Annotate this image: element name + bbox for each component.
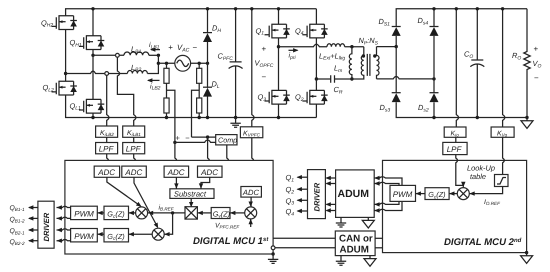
svg-text:PWM: PWM	[393, 190, 413, 199]
mixer squareX	[185, 207, 197, 219]
inductor LB2	[127, 71, 147, 74]
svg-text:Q1: Q1	[286, 173, 295, 183]
box MCU2	[383, 160, 527, 252]
transformer secondary winding	[377, 47, 380, 79]
wire: row LB2 with hop over QL1 drain and sense gap	[66, 71, 128, 73]
svg-text:QH1: QH1	[70, 38, 82, 48]
svg-text:Gc(Z): Gc(Z)	[107, 232, 124, 242]
wire: left divider middle	[166, 83, 168, 98]
wire: Q2 source to rail corner	[315, 104, 317, 117]
svg-text:Q3: Q3	[258, 93, 267, 103]
svg-text:ipri: ipri	[289, 52, 297, 61]
diode DH	[204, 33, 212, 40]
svg-text:−: −	[193, 43, 198, 52]
node: DH on top rail	[206, 7, 209, 10]
svg-text:+: +	[168, 43, 173, 52]
wire: AC line left	[158, 62, 174, 64]
transistor Q2	[302, 90, 327, 105]
svg-text:Comp: Comp	[218, 136, 237, 145]
wire: lookup to mult4	[469, 187, 502, 194]
wire: ADC5 to mult3	[250, 197, 252, 207]
svg-text:DIGITAL MCU 2nd: DIGITAL MCU 2nd	[444, 237, 522, 248]
svg-text:Q4: Q4	[286, 207, 295, 217]
transistor Q1	[265, 24, 290, 39]
svg-text:+: +	[262, 45, 267, 54]
svg-text:Q2: Q2	[286, 185, 295, 195]
node: CO top	[476, 7, 479, 10]
wire: mult3 to GvZ	[230, 212, 245, 214]
box PWM1	[71, 206, 98, 219]
box ADUM	[336, 170, 375, 218]
ground: ADUM triangle	[362, 217, 374, 228]
wire: mult1 to GcZ1	[129, 212, 136, 214]
ground: MCU1 earth	[268, 254, 278, 263]
resistor divider right upper	[198, 63, 200, 68]
wire: Substract to squareX	[190, 198, 192, 207]
box PWM3	[390, 185, 416, 201]
svg-text:LB1: LB1	[131, 45, 141, 55]
ground: CAN triangle	[364, 256, 376, 267]
svg-text:ADUM: ADUM	[340, 245, 369, 256]
box ADC3	[164, 166, 189, 177]
inductor LB1	[124, 52, 149, 55]
svg-text:ADC: ADC	[200, 168, 218, 177]
wire: GcZ3 to PWM3	[416, 193, 426, 195]
sense circle iLB1	[116, 53, 120, 57]
multiplier mult2	[152, 228, 164, 240]
svg-text:ADC: ADC	[242, 188, 260, 197]
wire: CAN to MCU2 stub lower	[375, 247, 382, 249]
wire: CAN bus line lower with circle at MCU1 edge	[273, 247, 335, 249]
svg-text:Ds3: Ds3	[380, 103, 391, 113]
svg-text:LPF: LPF	[126, 145, 142, 154]
wire: KILB2 to LPF	[106, 137, 108, 142]
wire: KILB1 to LPF	[133, 137, 135, 142]
wire: row LB1 with sense circle gap	[93, 54, 124, 56]
wire: PWM2 out a	[57, 229, 71, 230]
wire: driver2 out Q3	[298, 199, 308, 201]
wire: KVo sense line with rail hop	[503, 9, 505, 127]
svg-text:QB1-2: QB1-2	[10, 216, 25, 223]
wire: VOPFC sense bar	[252, 9, 254, 127]
svg-text:PWM: PWM	[74, 232, 94, 241]
svg-text:−: −	[534, 74, 539, 83]
svg-text:PWM: PWM	[74, 210, 94, 219]
svg-text:QH2: QH2	[41, 18, 53, 28]
wire: QL1 source	[92, 113, 94, 117]
node: LB1 left	[91, 54, 94, 57]
node A: bridge left midpoint	[277, 45, 280, 48]
wire: right divider tap to comparator minus	[192, 90, 200, 137]
svg-text:iLB2: iLB2	[150, 82, 161, 91]
wire: mult2 to GcZ2	[129, 233, 153, 235]
wire: Q4 drain from rail corner	[315, 9, 317, 24]
svg-text:NP:NS: NP:NS	[359, 36, 379, 46]
wire: driver2 out Q4	[298, 210, 308, 212]
wire: LExt to Lm node	[345, 46, 364, 48]
capacitor CO	[470, 9, 484, 118]
wire: Kio to LPF3	[455, 137, 457, 142]
capacitor CPFC	[229, 9, 243, 118]
ground: ADUM earth	[340, 216, 342, 219]
node: DL on bottom rail	[206, 116, 209, 119]
diode DS1	[392, 27, 401, 36]
node: RO bottom	[525, 116, 528, 119]
node: CPFC top	[234, 7, 237, 10]
box KILB2	[96, 126, 118, 137]
transistor QH1	[79, 35, 104, 50]
box ADC5	[241, 187, 262, 198]
wire: Q3 source	[278, 104, 280, 117]
wire: driver out QB1-2	[29, 217, 38, 219]
wire: secondary top rail	[396, 9, 527, 27]
wire: secondary bottom to rectifier with hop	[377, 77, 435, 79]
node: CR junction	[315, 77, 318, 80]
svg-text:VAC: VAC	[177, 43, 190, 53]
wire: PWM3 wrap inner to ADUM	[374, 182, 399, 204]
node: Lm top	[350, 45, 353, 48]
diode Ds4	[433, 9, 435, 27]
wire: CAN bus line upper (hop MCU1 edge)	[273, 237, 335, 239]
svg-text:Ds2: Ds2	[418, 103, 429, 113]
wire: DH vertical	[207, 9, 209, 64]
box ADC4	[198, 166, 223, 177]
node: Ds4 on top rail	[432, 7, 435, 10]
wire: GvZ to squareX	[197, 212, 211, 214]
node: left divider bottom	[165, 116, 168, 119]
inductor LExt+Llkg	[327, 44, 345, 47]
box CAN or ADUM	[335, 231, 375, 256]
node: DH DL junction	[206, 62, 209, 65]
wire: row LB1 right end	[149, 54, 159, 56]
wire: Q3 drain	[278, 47, 280, 91]
wire: driver out QB2-1	[29, 229, 38, 231]
wire: primary top rail	[66, 9, 317, 16]
svg-text:VO: VO	[533, 59, 542, 69]
svg-text:Q2: Q2	[295, 93, 304, 103]
node: DS1 Ds3 midpoint	[395, 45, 398, 48]
ground: PFC earth	[230, 118, 240, 127]
wire: PWM2 out b	[57, 239, 71, 240]
wire: plus line into Comp with hop	[175, 140, 216, 142]
resistor divider left lower	[164, 98, 169, 113]
node: QL1 source on bottom rail	[91, 116, 94, 119]
svg-text:VOPFC: VOPFC	[255, 59, 274, 69]
wire: ADUM to DRIVER2 line2	[326, 183, 335, 185]
node: sense bar top	[250, 7, 253, 10]
wire: driver out QB2-2	[29, 240, 38, 242]
svg-text:DL: DL	[212, 80, 220, 90]
svg-text:QL1: QL1	[70, 101, 82, 111]
diode Ds3	[395, 47, 397, 93]
wire: ADUM to DRIVER2 line1	[326, 177, 335, 179]
svg-text:DH: DH	[212, 24, 221, 34]
wire: KVo down to lookup (hop MCU border)	[503, 137, 505, 174]
wire: branch down to mult2	[164, 213, 172, 234]
wire: QL2 drain	[65, 74, 67, 82]
resistor divider left upper	[166, 63, 168, 68]
wire: Comp output to Substract (hop MCU border)	[214, 145, 229, 194]
wire: PWM1 out a (hop border)	[57, 206, 71, 207]
diode DL	[204, 88, 212, 95]
wire: Q4 source down to CR node	[315, 38, 317, 79]
svg-text:ADUM: ADUM	[338, 188, 370, 200]
wire: Ds4 to midpoint	[433, 36, 435, 79]
box KVPFC	[240, 127, 262, 138]
svg-text:LExt+Llkg: LExt+Llkg	[319, 51, 345, 61]
box GvZ	[211, 208, 230, 219]
node: Lm bottom	[350, 77, 353, 80]
node: Q1 drain on rail	[277, 7, 280, 10]
wire: GcZ1 to PWM1	[97, 212, 104, 214]
svg-text:QL2: QL2	[43, 83, 55, 93]
svg-text:+: +	[534, 45, 539, 54]
wire: LPF1 to ADC1 (hop MCU border)	[107, 154, 109, 166]
svg-text:LPF: LPF	[447, 145, 463, 154]
svg-text:iLB1: iLB1	[149, 41, 160, 50]
wire: ADUM to DRIVER2 line4	[326, 210, 335, 212]
wire: ADC4 input (hop MCU border)	[208, 137, 210, 166]
wire: Q1 drain	[278, 9, 280, 24]
svg-text:CR: CR	[334, 85, 343, 95]
box lookup icon	[495, 175, 509, 187]
svg-text:Ds4: Ds4	[418, 16, 429, 26]
multiplier mult3	[245, 207, 257, 219]
box LPF3	[443, 142, 467, 154]
transistor QH2	[52, 15, 77, 30]
svg-text:−: −	[262, 73, 267, 82]
transistor QL2	[52, 81, 77, 96]
wire: squareX to mult1	[148, 212, 185, 214]
svg-text:+: +	[176, 134, 181, 143]
svg-text:QB1-1: QB1-1	[10, 205, 25, 212]
svg-text:CAN or: CAN or	[339, 234, 373, 245]
annotation iLB1 arrow	[151, 49, 160, 51]
wire: QH1 source to node LB1	[92, 50, 94, 56]
node: AC line left junction	[157, 62, 160, 65]
wire: Kio sense line with rail hop	[456, 9, 458, 127]
svg-text:ADC: ADC	[97, 168, 115, 177]
svg-text:QB2-2: QB2-2	[10, 239, 25, 246]
multiplier mult4	[457, 188, 469, 200]
box ADC1	[94, 166, 119, 177]
wire: DL vertical	[207, 63, 209, 117]
box PWM2	[71, 229, 98, 242]
resistor RO zigzag	[524, 9, 530, 118]
svg-text:−: −	[185, 134, 190, 143]
wire: node A to LExt with hop over Q4 leg	[279, 44, 328, 47]
wire: QH1 drain	[92, 9, 94, 36]
node: row1 right	[157, 54, 160, 57]
node: Ds2 on bottom rail	[432, 116, 435, 119]
box KILB1	[123, 126, 145, 137]
multiplier mult1	[136, 207, 148, 219]
wire: GcZ2 to PWM2	[97, 233, 104, 235]
wire: driver2 out Q2	[298, 188, 308, 190]
svg-text:CPFC: CPFC	[218, 52, 234, 62]
sense circle iLB2	[105, 72, 109, 76]
node: secondary bottom at Ds2 leg	[432, 77, 435, 80]
wire: ADC3 to Substract	[175, 177, 177, 189]
phase dot primary	[362, 54, 365, 57]
svg-text:DS1: DS1	[379, 17, 391, 27]
wire: row LB2 right end riser	[147, 55, 158, 73]
svg-text:table: table	[470, 172, 486, 181]
wire: Q2 drain	[315, 79, 317, 90]
wire: right divider middle	[198, 83, 200, 98]
annotation iLB2 arrow	[148, 79, 160, 81]
node: Q3 source on rail	[277, 116, 280, 119]
box ADC2	[122, 166, 147, 177]
capacitor CR	[316, 75, 352, 83]
wire: primary bottom rail	[66, 95, 317, 118]
svg-text:Gc(Z): Gc(Z)	[107, 210, 124, 220]
wire: left divider tap to comparator plus	[167, 90, 175, 142]
wire: LPF3 down to mult4 (hop MCU border)	[456, 155, 464, 187]
transformer core	[367, 54, 370, 76]
ground: CAN earth	[336, 256, 346, 265]
wire: CAN to MCU2 stub upper	[375, 237, 382, 239]
box DRIVER2	[308, 170, 326, 219]
svg-text:Q3: Q3	[286, 196, 295, 206]
wire: minus line into Comp	[192, 136, 216, 138]
wire: secondary top to rectifier	[377, 46, 397, 48]
wire: mult4 to GcZ3	[449, 193, 457, 195]
wire: iLB2 tap down to KILB2 (rail hop)	[107, 75, 109, 126]
resistor divider right lower	[197, 98, 202, 113]
box GcZ2	[104, 229, 129, 242]
svg-text:Gc(Z): Gc(Z)	[428, 190, 445, 200]
phase dot secondary	[373, 54, 376, 57]
svg-text:ADC: ADC	[124, 168, 142, 177]
box GcZ1	[104, 206, 129, 219]
wire: ADC3 input (hop MCU border)	[175, 142, 177, 166]
annotation ipri arrow	[289, 49, 298, 51]
box Kio	[444, 127, 466, 137]
svg-text:Q4: Q4	[295, 26, 304, 36]
transistor QL1	[79, 99, 104, 114]
svg-text:Gv(Z): Gv(Z)	[213, 209, 230, 219]
ground: MCU2 triangle	[521, 253, 533, 264]
svg-text:RO: RO	[512, 51, 521, 61]
svg-text:Q1: Q1	[256, 26, 265, 36]
box Substract	[170, 189, 214, 199]
box LPF left1	[96, 143, 118, 154]
transformer primary winding	[352, 47, 364, 79]
wire: PWM1 out b	[57, 217, 71, 218]
source VAC circle	[175, 55, 191, 71]
svg-text:LPF: LPF	[99, 145, 115, 154]
svg-text:ADC: ADC	[167, 168, 185, 177]
diode Ds2	[433, 79, 435, 93]
svg-text:LB2: LB2	[131, 63, 141, 73]
box GcZ3	[425, 188, 449, 200]
node: CO bottom	[476, 116, 479, 119]
wire: LPF2 to ADC2 (hop MCU border)	[134, 154, 136, 166]
node: CPFC bottom	[234, 116, 237, 119]
wire: ADUM to DRIVER2 line3	[326, 203, 335, 205]
node: minus branch to ADC4	[206, 135, 209, 138]
node: QH1 drain on top rail	[91, 7, 94, 10]
svg-text:Lm: Lm	[334, 64, 342, 74]
node: Kio tap on top rail	[455, 7, 458, 10]
box MCU1	[65, 160, 273, 254]
box LPF left2	[123, 143, 145, 154]
transistor Q3	[265, 90, 290, 105]
ground: output triangle	[521, 118, 533, 129]
wire: driver out QB1-1	[29, 207, 38, 209]
node: plus line junction	[173, 141, 176, 144]
wire: PWM3 wrap outer to ADUM (hops MCU border)	[374, 177, 402, 211]
wire: secondary bottom rail	[396, 102, 527, 117]
inductor Lm vertical	[349, 47, 352, 79]
node: MCU2 ground corner	[525, 251, 528, 254]
node: right divider top	[198, 62, 201, 65]
wire: ADC4 to Substract	[201, 177, 210, 189]
box Comp	[216, 135, 237, 145]
svg-text:DRIVER: DRIVER	[42, 212, 51, 241]
node: right divider bottom	[198, 116, 201, 119]
svg-text:Substract: Substract	[174, 190, 207, 199]
node: LB2 left	[64, 72, 67, 75]
wire: ADC2 to mult2 diagonal	[134, 177, 157, 226]
node: MCU1 ground corner	[271, 252, 274, 255]
wire: QL1 drain (hop over LB2 row)	[92, 55, 94, 99]
wire: driver2 out Q1	[298, 176, 308, 178]
node: KVo tap on top rail	[501, 7, 504, 10]
node: iB.REF branch	[171, 211, 174, 214]
wire: iLB1 tap down, jog, to KILB1 (rail hop)	[117, 57, 136, 126]
svg-text:DRIVER: DRIVER	[313, 182, 322, 211]
svg-text:CO: CO	[464, 50, 473, 60]
svg-text:QB2-1: QB2-1	[10, 228, 25, 235]
box DRIVER1	[38, 201, 54, 248]
wire: ADC1 to mult1 diagonal	[107, 177, 140, 205]
wire: Q1 source to node A	[278, 38, 280, 47]
wire: QH2 source down to LB2 node	[65, 30, 67, 74]
svg-text:DIGITAL MCU 1st: DIGITAL MCU 1st	[193, 236, 269, 247]
box KVo	[491, 127, 514, 137]
annotation VPFC.REF arrow into mult3	[250, 219, 252, 227]
node: left divider top	[165, 62, 168, 65]
transistor Q4	[302, 24, 327, 39]
wire: KVPFC to ADC5 (hop MCU border)	[252, 138, 254, 187]
wire: AC line right	[191, 62, 208, 64]
